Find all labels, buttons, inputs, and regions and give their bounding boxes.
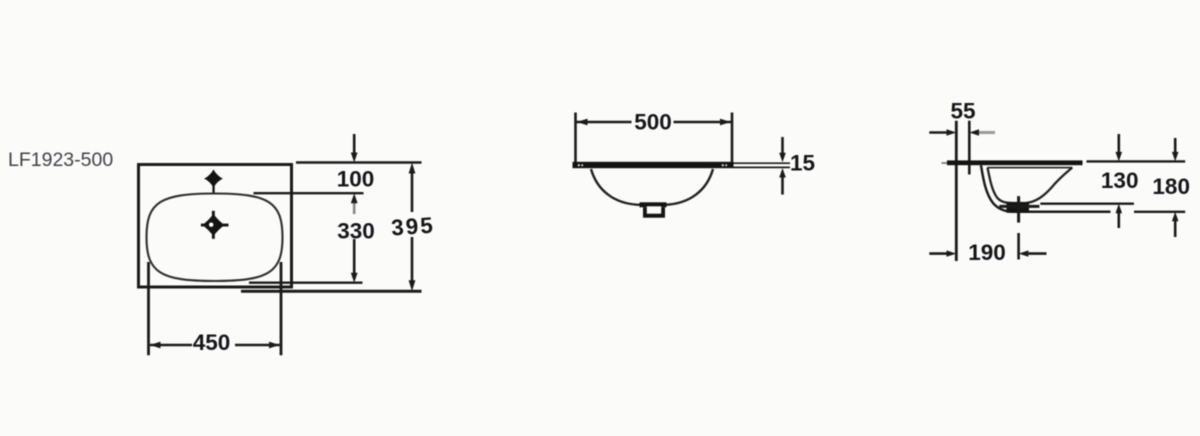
svg-text:55: 55 [950,99,975,124]
svg-text:450: 450 [193,330,231,355]
svg-text:180: 180 [1152,174,1190,199]
svg-text:190: 190 [968,240,1006,265]
svg-text:500: 500 [634,110,672,135]
svg-text:395: 395 [390,213,435,241]
svg-text:15: 15 [790,151,815,176]
svg-text:100: 100 [337,167,375,192]
svg-text:LF1923-500: LF1923-500 [8,149,113,171]
svg-text:130: 130 [1101,168,1139,193]
svg-text:330: 330 [337,219,375,244]
